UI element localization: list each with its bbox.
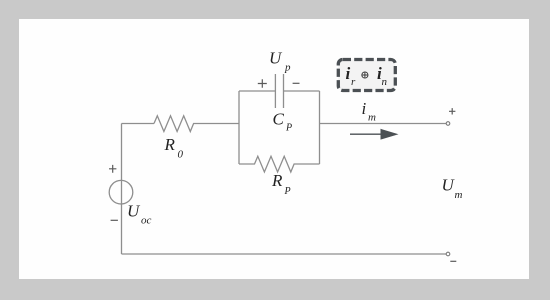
svg-text:m: m — [368, 112, 376, 124]
svg-text:U: U — [127, 202, 141, 221]
svg-text:U: U — [442, 176, 456, 195]
svg-text:U: U — [269, 49, 283, 68]
svg-text:p: p — [284, 61, 291, 73]
svg-text:P: P — [285, 123, 292, 134]
svg-text:i: i — [346, 64, 351, 83]
svg-text:P: P — [284, 186, 291, 197]
svg-text:n: n — [382, 76, 388, 88]
svg-text:r: r — [351, 76, 356, 88]
svg-text:oc: oc — [141, 215, 152, 227]
svg-text:C: C — [273, 110, 285, 129]
svg-text:R: R — [271, 171, 283, 190]
svg-text:R: R — [164, 135, 176, 154]
svg-text:0: 0 — [178, 149, 184, 161]
svg-text:m: m — [455, 189, 463, 201]
svg-text:i: i — [362, 99, 367, 118]
